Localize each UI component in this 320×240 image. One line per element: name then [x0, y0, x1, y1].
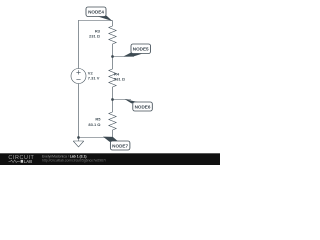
svg-text:LAB: LAB — [24, 159, 33, 164]
wire left vertical lower — [78, 84, 80, 138]
V2 minus sign — [76, 79, 80, 81]
footer logo zigzag — [9, 160, 20, 162]
node flag NODE7 — [103, 137, 130, 150]
node junction dot A — [111, 55, 114, 58]
wire R5 to bottom corner — [112, 130, 114, 138]
wire R3 to R4 — [112, 44, 114, 69]
V2 plus sign — [76, 70, 80, 74]
wire R4 to R5 — [112, 87, 114, 112]
node flag NODE6 — [125, 99, 153, 111]
svg-text:http://circuitlab.com/circuit/: http://circuitlab.com/circuit/5g6nce7w29… — [42, 159, 106, 163]
wire bottom rail — [78, 137, 113, 139]
voltage source V2 — [71, 69, 86, 84]
node junction dot C — [77, 136, 80, 139]
resistor R4 — [109, 69, 116, 87]
wire node5 stub — [113, 56, 135, 58]
svg-text:R3: R3 — [95, 28, 101, 33]
svg-text:R5: R5 — [95, 116, 101, 121]
svg-text:231 Ω: 231 Ω — [89, 34, 101, 39]
svg-text:83.1 Ω: 83.1 Ω — [88, 122, 101, 127]
wire top rail — [78, 20, 113, 22]
resistor R5 — [109, 112, 116, 130]
wire node6 stub — [113, 99, 132, 101]
wire right chain upper — [112, 21, 114, 27]
svg-text:7.31 V: 7.31 V — [88, 76, 100, 81]
footer bar — [0, 153, 220, 165]
svg-text:R4: R4 — [114, 71, 120, 76]
node junction dot B — [111, 98, 114, 101]
footer logo LAB — [21, 160, 23, 163]
wire left vertical upper — [78, 21, 80, 69]
node flag NODE5 — [124, 44, 151, 56]
svg-text:NODE7: NODE7 — [112, 143, 128, 148]
svg-text:V2: V2 — [88, 70, 94, 75]
resistor R3 — [109, 26, 116, 44]
node flag NODE4 — [86, 7, 112, 21]
svg-text:531 Ω: 531 Ω — [114, 77, 126, 82]
svg-text:NODE6: NODE6 — [135, 104, 151, 109]
svg-text:NODE4: NODE4 — [88, 10, 104, 15]
ground — [73, 138, 84, 147]
svg-text:NODE5: NODE5 — [133, 47, 149, 52]
